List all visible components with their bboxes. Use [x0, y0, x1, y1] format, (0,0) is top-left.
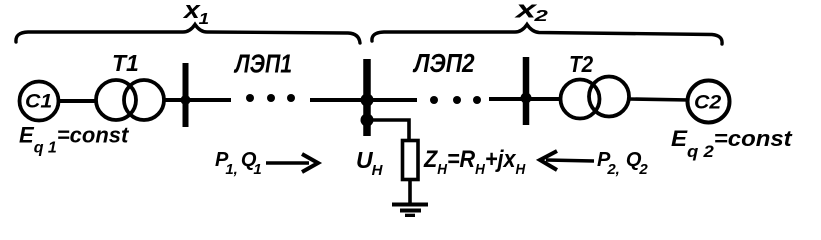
junction dot bus3	[521, 93, 532, 104]
transformer T1	[96, 80, 136, 120]
generator C1	[20, 82, 59, 121]
line LEP1 dots	[246, 94, 254, 102]
svg-text:C2: C2	[694, 92, 721, 113]
resistor Zн (load)	[403, 141, 419, 180]
junction dot bus1	[181, 95, 191, 105]
svg-text:C1: C1	[25, 91, 52, 112]
generator C2	[688, 81, 730, 123]
svg-text:ЛЭП2: ЛЭП2	[412, 50, 475, 79]
arrow P1Q1 (points right)	[266, 161, 309, 164]
brace x1 span	[16, 25, 360, 44]
svg-text:T2: T2	[569, 51, 593, 77]
junction dot bus2 load tap	[361, 114, 374, 127]
wire resistor to ground	[408, 179, 412, 203]
bus 3 (right)	[523, 57, 530, 125]
wire load tap	[367, 120, 409, 141]
transformer T2	[561, 80, 600, 119]
svg-text:ЛЭП1: ЛЭП1	[233, 50, 292, 80]
svg-text:T1: T1	[112, 50, 139, 76]
wire LEP2 to T2	[489, 97, 560, 101]
wire T1 to line LEP1	[163, 98, 231, 102]
line LEP2 dots	[430, 96, 438, 104]
brace x2 span	[372, 25, 722, 45]
wire C1 to T1	[58, 99, 97, 103]
bus 2 (middle)	[363, 59, 371, 136]
junction dot bus2 main	[361, 94, 374, 107]
arrow P2Q2 (points left)	[546, 160, 594, 161]
wire T2 to C2	[629, 99, 689, 100]
ground	[392, 203, 428, 207]
wire LEP1 to bus 2	[310, 98, 417, 102]
bus 1	[183, 63, 189, 127]
